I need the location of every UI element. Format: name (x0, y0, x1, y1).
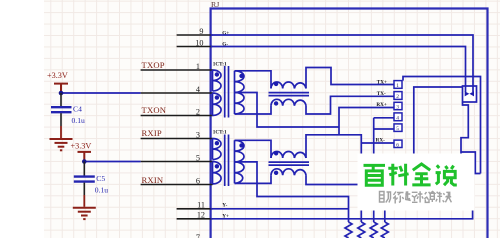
resistor R4 stub (384, 211, 386, 223)
transformer T1 primary winding (213, 70, 222, 91)
watermark green glyphs 百科全说 (364, 164, 457, 186)
pin 11 (177, 208, 213, 210)
choke L2 top winding (271, 151, 306, 158)
choke L2 core (269, 161, 310, 163)
wire G- internal (211, 47, 466, 92)
svg-text:10: 10 (195, 38, 203, 47)
svg-text:6: 6 (396, 142, 399, 148)
T1 primary dot lower (215, 95, 219, 99)
resistor R3 stub (373, 211, 375, 223)
ground (C5) (73, 208, 96, 219)
svg-text:9: 9 (199, 27, 203, 36)
svg-text:TX+: TX+ (377, 79, 387, 85)
svg-text:5: 5 (396, 126, 399, 132)
svg-text:1: 1 (196, 62, 200, 71)
wire T2 center tap (235, 162, 349, 222)
LED verticals inside box (465, 86, 467, 92)
wire TX+ (306, 68, 394, 89)
svg-text:1CT:1: 1CT:1 (213, 61, 227, 67)
jack pin digits (396, 83, 399, 148)
svg-text:3: 3 (396, 105, 399, 111)
svg-text:RJ: RJ (211, 0, 219, 9)
svg-text:Y-: Y- (222, 203, 227, 209)
svg-text:0.1u: 0.1u (72, 116, 85, 125)
jack pin box 5 (394, 124, 402, 131)
svg-text:3: 3 (196, 130, 200, 139)
transformer T1 secondary winding (235, 71, 245, 114)
transformer T1 core (224, 66, 226, 118)
wire RX- to jack pin 6 (361, 142, 394, 144)
pin 5 (141, 161, 213, 163)
svg-text:4: 4 (196, 85, 200, 94)
svg-text:TX-: TX- (377, 91, 386, 97)
svg-text:7: 7 (196, 233, 200, 238)
svg-text:RX+: RX+ (376, 102, 386, 108)
winding dots (215, 72, 279, 175)
L2 top dot (274, 151, 278, 155)
jack pin box 2 (394, 92, 402, 100)
svg-text:0.1u: 0.1u (95, 185, 108, 194)
jack pin box 6 (394, 140, 402, 147)
轻 (405, 191, 417, 202)
wire jack pin 4 (374, 117, 394, 119)
wire T2 secondary bottom to choke L2 (235, 175, 272, 183)
jack outline right steps (461, 103, 468, 154)
wire to jack upper right (403, 77, 481, 174)
ground (C4) (50, 139, 73, 150)
wire G+ internal (211, 35, 473, 92)
全 (412, 164, 430, 185)
choke L1 bottom winding (271, 99, 306, 106)
wire node to pin4 (61, 92, 141, 94)
助 (380, 192, 391, 203)
wire pins 4/5 down (373, 118, 375, 154)
wire Y- internal (211, 208, 349, 210)
pin 3 (141, 138, 213, 140)
pin 4 (141, 92, 213, 94)
resistor R2 (358, 222, 365, 238)
你 (393, 192, 403, 204)
jack pin box 4 (394, 113, 402, 121)
T1 secondary dot (239, 74, 243, 78)
说 (436, 165, 457, 185)
resistor R4 (381, 222, 388, 238)
jack pin box 1 (394, 81, 402, 89)
transformer T2 core (224, 135, 226, 187)
transformer T2 secondary winding (235, 140, 245, 183)
百 (364, 165, 386, 185)
capacitor C5 (74, 162, 108, 207)
transformer T2 primary winding (213, 139, 222, 160)
jack pin box 3 (394, 102, 402, 109)
svg-text:2: 2 (396, 94, 399, 100)
junction node (59, 91, 64, 96)
wire jack pin 5 (374, 128, 394, 130)
T1 primary dot upper (215, 72, 219, 76)
决 (443, 192, 452, 202)
L1 top dot (274, 82, 278, 86)
pin 9 (177, 34, 213, 36)
svg-text:11: 11 (197, 200, 205, 209)
pin 6 (141, 184, 213, 186)
svg-text:5: 5 (196, 153, 200, 162)
power +3.3V (upper) (54, 84, 68, 92)
wire RX+ (306, 108, 394, 159)
wire T1 secondary bottom to choke L1 (235, 106, 272, 114)
junction node (82, 159, 87, 164)
T2 primary dot upper (215, 141, 219, 145)
wire T2 secondary top to choke L2 (235, 140, 272, 158)
capacitor C4 (51, 93, 85, 138)
pin 1 (141, 69, 213, 71)
svg-text:TXOP: TXOP (142, 60, 165, 70)
choke L1 top winding (271, 82, 306, 89)
svg-text:RXIP: RXIP (142, 128, 162, 138)
svg-text:6: 6 (196, 176, 200, 185)
svg-text:C5: C5 (96, 174, 105, 183)
svg-text:12: 12 (197, 211, 205, 220)
power +3.3V (lower) (78, 152, 92, 161)
resistor R3 (370, 222, 377, 238)
svg-text:1CT:1: 1CT:1 (213, 130, 227, 136)
svg-text:+3.3V: +3.3V (71, 142, 92, 151)
pin 10 (177, 46, 213, 48)
wire RX- lower (306, 175, 358, 184)
T2 primary dot lower (215, 164, 219, 168)
T2 secondary dot (239, 143, 243, 147)
解 (430, 192, 442, 203)
pin 2 (141, 115, 213, 117)
all blue wires/windings group (211, 35, 481, 222)
松 (417, 191, 431, 202)
svg-text:RXIN: RXIN (142, 175, 164, 185)
resistor R2 stub (360, 211, 362, 223)
pin 12 (177, 218, 213, 220)
resistor R1 (345, 222, 352, 238)
svg-text:2: 2 (196, 107, 200, 116)
svg-text:1: 1 (396, 83, 399, 89)
wire T1 secondary top to choke L1 (235, 71, 272, 89)
choke L2 bottom winding (271, 169, 306, 176)
L1 bottom dot (274, 101, 278, 105)
watermark gray glyphs 助你轻松解决 (380, 191, 452, 203)
wire node to pin5 (84, 161, 140, 163)
wire TX- (306, 96, 394, 114)
component box RJ (211, 9, 488, 239)
wire Y+ internal bus (211, 210, 473, 219)
svg-text:TXON: TXON (142, 105, 167, 115)
LED indicator box (463, 86, 477, 102)
jack lower right step (461, 152, 481, 174)
svg-text:C4: C4 (73, 105, 82, 114)
科 (388, 164, 408, 186)
watermark box (358, 154, 475, 211)
LED symbol (bowtie) (465, 91, 474, 96)
svg-text:4: 4 (396, 116, 399, 122)
svg-text:+3.3V: +3.3V (47, 71, 68, 80)
jack body outline (414, 87, 463, 154)
svg-text:RX-: RX- (376, 137, 385, 143)
choke L1 core (269, 92, 310, 94)
L2 bottom dot (274, 171, 278, 175)
wire T1 center tap (235, 93, 340, 128)
